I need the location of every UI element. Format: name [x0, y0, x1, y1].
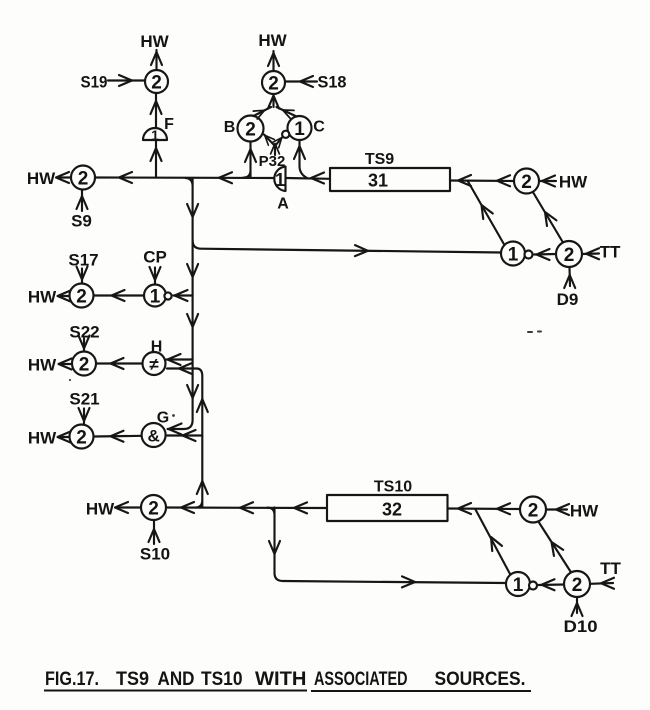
svg-text:1: 1	[508, 245, 519, 266]
wire C to U2	[277, 106, 297, 118]
wire U9 output to HW	[59, 359, 73, 370]
svg-text:S22: S22	[69, 323, 99, 342]
caption underline left	[44, 690, 307, 692]
svg-text:WITH: WITH	[255, 669, 307, 690]
svg-text:2: 2	[76, 428, 87, 449]
gate circle B (2)	[238, 116, 264, 142]
wire HW input to U12	[546, 504, 569, 515]
wire H to U9	[96, 358, 143, 369]
wire D10 input to U14	[572, 598, 583, 617]
merge circle U11 (2)	[141, 495, 166, 520]
svg-text:2: 2	[572, 575, 583, 596]
svg-text:H: H	[151, 339, 163, 356]
wire U2 output to HW	[268, 51, 279, 71]
wire branch to long line right	[193, 241, 501, 257]
wire S21 input to U10	[79, 408, 90, 424]
merge circle U9 (2)	[72, 352, 96, 376]
wire top bus	[95, 172, 274, 183]
svg-text:HW: HW	[28, 429, 57, 448]
gate circle U5 (1)	[501, 242, 525, 266]
svg-text:C: C	[313, 119, 325, 136]
wire diagonal U14 to U12	[539, 523, 571, 572]
wire trunk to U7 bubble	[174, 290, 193, 301]
svg-text:TS10: TS10	[374, 479, 412, 496]
wire S22 input to U9	[79, 336, 90, 352]
svg-text:HW: HW	[140, 32, 169, 51]
gate F1 dome	[143, 128, 167, 140]
svg-text:G: G	[157, 410, 169, 427]
bubble on U5	[525, 251, 533, 259]
wire S18 input to U2	[285, 76, 317, 87]
wire right bus into TS9	[450, 175, 514, 186]
bubble on U7	[164, 292, 171, 299]
wire diagonal U13 to bus junction	[476, 510, 511, 575]
wire CP input to U7	[150, 267, 161, 284]
bubble on U13	[529, 582, 537, 590]
svg-text:TS9: TS9	[365, 151, 394, 168]
svg-text:S9: S9	[71, 212, 92, 231]
wire B to U2	[253, 106, 271, 119]
svg-text:D9: D9	[557, 290, 579, 309]
svg-text:1: 1	[150, 287, 161, 308]
svg-text:≠: ≠	[149, 355, 159, 374]
svg-text:2: 2	[268, 74, 279, 95]
merge circle U8 (2)	[70, 284, 94, 308]
gate circle U7 (1) CP	[144, 285, 166, 307]
svg-text:CP: CP	[143, 248, 167, 267]
svg-text:S10: S10	[140, 545, 170, 564]
wire U11 output to HW (bottom bus)	[115, 502, 141, 513]
svg-text:D10: D10	[564, 617, 598, 636]
svg-text:1: 1	[294, 119, 305, 140]
svg-text:TT: TT	[600, 559, 621, 578]
wire diagonal U5 to bus junction	[468, 182, 505, 247]
wire P32 split to B and C	[262, 132, 285, 155]
merge circle U1 (2)	[145, 70, 168, 93]
wire U1 output to HW (top-left)	[151, 50, 162, 70]
svg-text:S21: S21	[69, 390, 99, 409]
svg-text:1: 1	[275, 170, 285, 190]
svg-text:2: 2	[528, 501, 539, 522]
svg-text:2: 2	[564, 245, 575, 266]
wire F1 to U1	[151, 93, 162, 127]
svg-text:HW: HW	[27, 169, 56, 188]
caption underline right	[311, 690, 531, 692]
svg-text:HW: HW	[570, 502, 599, 521]
svg-text:F: F	[164, 116, 174, 133]
svg-text:2: 2	[245, 120, 256, 141]
wire bus to F1	[151, 140, 162, 178]
svg-text:HW: HW	[28, 356, 57, 375]
wire branch down to lower line	[268, 508, 507, 588]
svg-text:SOURCES.: SOURCES.	[435, 669, 526, 690]
gate circle C (1)	[288, 116, 312, 140]
svg-text:S19: S19	[81, 73, 108, 92]
svg-text:S17: S17	[68, 251, 98, 270]
merge circle U2 (2)	[262, 71, 285, 94]
wire U6 to U5 bubble	[534, 249, 556, 260]
gate circle H (&#8800;)	[143, 352, 166, 375]
wire U14 to U13 bubble	[539, 579, 565, 590]
wire S17 input to U8	[77, 267, 88, 284]
svg-text:FIG.17.: FIG.17.	[45, 669, 99, 690]
register TS9 box	[330, 168, 450, 191]
wire diagonal U6 to U4	[534, 193, 564, 243]
wire U7 to U8	[94, 290, 144, 301]
bubble on C	[282, 131, 289, 138]
svg-text:HW: HW	[559, 173, 588, 192]
merge circle U6 (2)	[556, 241, 582, 267]
scan speck near G label	[172, 414, 175, 417]
wire bottom bus	[166, 502, 327, 513]
scan speck left of bus	[69, 379, 71, 381]
svg-text:2: 2	[76, 287, 87, 308]
merge circle U14 (2)	[564, 571, 590, 597]
gate A dome	[274, 167, 285, 192]
svg-text:B: B	[224, 119, 236, 136]
svg-text:AND: AND	[158, 669, 195, 690]
wire S10 input to U11	[149, 521, 160, 544]
wire bus to B	[244, 142, 257, 178]
wire U8 output to HW	[58, 291, 71, 302]
svg-text:HW: HW	[86, 500, 115, 519]
merge circle U3 (2)	[71, 166, 95, 190]
svg-text:2: 2	[148, 499, 159, 520]
wire G to U10	[94, 431, 142, 442]
svg-text:TS10: TS10	[201, 669, 243, 690]
merge circle U12 (2)	[520, 497, 546, 523]
svg-text:HW: HW	[28, 288, 57, 307]
svg-text:32: 32	[382, 500, 402, 520]
svg-text:HW: HW	[258, 31, 287, 50]
wire HW input to U4	[539, 176, 556, 187]
wire bus to C	[294, 141, 307, 179]
svg-text:1: 1	[513, 575, 524, 596]
merge circle U10 (2)	[70, 425, 94, 449]
wire D9 input to U6	[564, 268, 575, 289]
wire TT input to U6	[582, 248, 599, 259]
caption FIG.17	[45, 669, 526, 690]
svg-text:TT: TT	[600, 243, 621, 262]
wire main vertical trunk	[168, 178, 199, 435]
wire S9 input to U3	[77, 190, 88, 211]
svg-text:2: 2	[79, 355, 90, 376]
svg-text:ASSOCIATED: ASSOCIATED	[314, 669, 408, 690]
gate circle G (&amp;)	[142, 423, 166, 447]
wire A dome to TS9 box	[286, 173, 331, 184]
wire second trunk to G gate	[167, 430, 202, 441]
svg-text:S18: S18	[318, 73, 347, 92]
wire second trunk to H gate	[167, 363, 208, 508]
wire U10 output to HW	[58, 432, 71, 443]
wire U3 output to HW (bus row)	[56, 172, 71, 183]
gate circle U13 (1)	[506, 572, 530, 596]
svg-text:TS9: TS9	[116, 669, 149, 690]
wire right bus into TS10	[448, 503, 521, 514]
wire S19 input to U1	[108, 75, 145, 86]
svg-text:2: 2	[151, 73, 162, 94]
svg-text:P32: P32	[259, 153, 286, 170]
svg-text:2: 2	[78, 169, 89, 190]
svg-text:31: 31	[368, 171, 388, 191]
svg-text:A: A	[277, 196, 289, 213]
svg-text:1: 1	[151, 127, 159, 143]
wire TT input to U14	[591, 578, 615, 589]
wire trunk to H gate	[167, 354, 193, 365]
merge circle U4 (2)	[514, 169, 539, 194]
svg-text:&: &	[147, 427, 159, 446]
wire to U2 input	[268, 94, 279, 109]
svg-text:2: 2	[521, 172, 532, 193]
register TS10 box	[327, 495, 448, 521]
scan speck near D9 junction	[527, 331, 542, 334]
